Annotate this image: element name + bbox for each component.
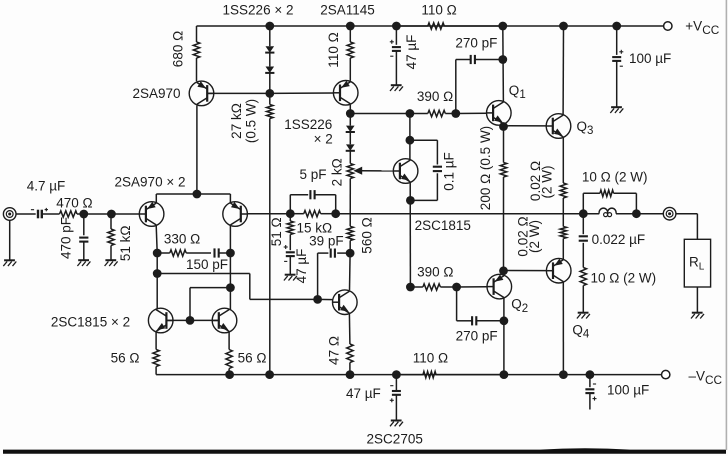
resistor 0.02 ohm Q4 [560,227,566,260]
capacitor 0.1uF [433,167,442,171]
right edge line [725,0,727,450]
junction 0.1uF bottom tap [406,196,415,205]
label 100uF bottom [607,383,649,398]
resistor 560 ohm [347,226,353,253]
wire 47uF to ground [395,51,397,85]
capacitor 5pF [310,190,314,199]
capacitor 47uF -Vcc [390,386,401,403]
svg-text:–VCC: –VCC [689,369,723,387]
resistor 27k 0.5W [267,93,273,374]
wire 150pF to T2 collector [219,252,231,254]
transistor T2 2SA970 diff right [223,202,248,227]
ground 100uF +Vcc [610,107,623,113]
wire Q3 collector [562,26,564,115]
wire T5 emitter col [409,182,411,287]
junction VAS emitter at rail [346,370,355,379]
wire 47uF bottom to ground [395,395,397,421]
label RL [689,255,705,273]
ground 47uF feedback [284,275,297,281]
junction T4 collector node [346,109,355,118]
ground 47uF -Vcc [390,421,403,427]
potentiometer 2k trimmer [347,164,353,179]
label 47uF top [404,35,419,70]
svg-text:56 Ω: 56 Ω [238,351,267,366]
junction 270pF at Q2 collector [500,316,509,325]
svg-text:+VCC: +VCC [685,19,719,37]
label Q1 [509,83,526,101]
wire rail to D1 [269,26,271,46]
svg-text:270 pF: 270 pF [455,35,497,50]
diode D1 1SS226 [265,46,274,52]
label 2SA970 [132,86,180,101]
junction rail bottom 47uF [392,370,401,379]
svg-text:0.022 µF: 0.022 µF [592,232,646,247]
wire left emitter [155,194,157,203]
diode D2 1SS226 [265,67,274,73]
svg-text:(0.5 W): (0.5 W) [244,99,259,143]
resistor 47 ohm [347,344,353,375]
wire Q4 base [504,270,547,272]
label 470 ohm [56,196,92,211]
wire Q1 collector [502,26,505,102]
svg-text:2SA970: 2SA970 [132,86,180,101]
wire node B to T1 base [111,213,139,215]
resistor 15k feedback [290,211,335,217]
junction Q1 emitter node [499,122,508,131]
junction T1 collector node [153,249,162,258]
capacitor 270pF bottom [472,316,476,325]
svg-text:× 2: × 2 [314,132,333,147]
label 270 pF top [455,35,497,50]
wire D4 to trimmer [349,151,351,164]
wire node A to node B [84,213,112,215]
svg-text:390 Ω: 390 Ω [417,89,453,104]
svg-text:10 Ω (2 W): 10 Ω (2 W) [591,270,657,285]
junction Q1 base node [451,109,460,118]
wire 5pF left leg [290,195,308,214]
wire Q4 collector [562,282,564,375]
label 47 ohm [326,336,341,365]
svg-text:0.1 µF: 0.1 µF [441,152,456,191]
capacitor 150pF [215,248,219,257]
resistor 56 ohm right [226,332,232,375]
transistor Q2 driver PNP [487,274,512,299]
junction T2 collector node [226,249,235,258]
resistor 390 ohm top [350,110,456,116]
svg-text:1SS226 × 2: 1SS226 × 2 [223,2,294,17]
wire trimmer to 560 ohm [349,179,351,227]
transistor T6 VAS 2SC2705 [333,290,358,315]
capacitor 0.022uF zobel [579,236,588,240]
ground input jack [3,260,16,266]
label 2SA970 x2 [115,175,186,190]
label 1SS226 x2 top [223,2,294,17]
label 270 pF bottom [456,328,498,343]
junction bias base node [265,89,274,98]
label Q4 [572,323,590,341]
svg-text:110 Ω: 110 Ω [421,3,456,18]
svg-text:47 µF: 47 µF [404,35,419,70]
capacitor 47uF feedback [284,245,295,261]
svg-text:15 kΩ: 15 kΩ [296,221,332,236]
diode D3 1SS226 [346,126,355,132]
bottom black bar [3,448,726,454]
svg-text:39 pF: 39 pF [309,233,344,248]
svg-text:2SC1815 × 2: 2SC1815 × 2 [51,315,130,330]
label 47 uF feedback [294,249,309,284]
capacitor 100uF +Vcc [612,50,623,66]
junction rail diode string [265,22,274,31]
label 39 pF [309,233,344,248]
label 0.1 uF [441,152,456,191]
wire mirror bases link [166,319,218,321]
label 2SA1145 [320,3,375,18]
wire 270pF bottom left leg [457,287,472,321]
wire rail to 100uF bottom [589,375,591,388]
resistor 470 ohm input [42,211,84,217]
label 0.02 ohm Q3 [528,161,543,201]
capacitor C2 470pF [79,238,88,242]
label 2SC1815 bias [415,218,471,233]
svg-text:Q2: Q2 [511,297,528,315]
svg-text:2SA1145: 2SA1145 [320,3,375,18]
junction Q3 collector rail [559,22,568,31]
svg-text:Q1: Q1 [509,83,526,101]
inductor L1 output coil [599,208,616,216]
wire to output jack [636,213,663,215]
svg-text:2SC1815: 2SC1815 [415,218,471,233]
wire D2 to base node [269,73,271,94]
wire 270pF right leg [475,59,502,61]
capacitor 100uF -Vcc [585,384,596,401]
svg-text:51 Ω: 51 Ω [269,217,284,246]
label Q2 [511,297,528,315]
junction Q2 emitter node [499,266,508,275]
junction 27k at -Vcc rail [265,370,274,379]
wire D3 to D4 [349,132,351,144]
wire base node to T4 base [270,92,334,94]
wire Q3 base [504,125,547,127]
transistor Q4 output PNP [546,258,571,283]
resistor 330 ohm [157,250,211,256]
terminal +Vcc [664,22,672,30]
junction output line left [331,209,340,218]
resistor 0.02 ohm Q3 [560,137,566,227]
wire 5pF right leg [315,195,336,214]
ground 47uF +Vcc [390,85,403,91]
wire to Q1 base [456,112,487,114]
transistor T4 2SA1145 [333,81,358,106]
resistor 390 ohm bottom [410,284,456,290]
label 15 kohm [296,221,332,236]
svg-text:(2 W): (2 W) [540,166,555,199]
wire 47uF to ground [289,256,291,274]
junction 270pF at Q1 collector [498,55,507,64]
transistor T7 2SC1815 mirror left [148,308,173,333]
wire VAS emitter to 47 ohm [348,314,351,344]
junction feedback node [286,209,295,218]
junction mirror left tap [153,269,162,278]
wire 0.1uF bottom leg [410,173,437,200]
svg-text:470 pF: 470 pF [59,217,74,259]
wire rail to 47uF bottom [395,375,397,391]
junction Q4 collector rail [559,370,568,379]
junction input node B [107,210,116,219]
wire zobel cap leg [582,214,584,235]
label 2W Q3 [540,166,555,199]
terminal -Vcc [662,370,670,378]
junction mirror bases [186,316,195,325]
label 0.02 ohm Q4 [516,216,531,256]
label +Vcc [685,19,719,37]
wire node to D3 [349,114,351,126]
label 51 kohm [118,225,133,261]
capacitor 47uF +Vcc [390,40,401,56]
label 51 ohm [269,217,284,246]
wire 270pF left leg [456,60,470,114]
transistor T1 2SA970 diff left [139,202,164,227]
ground zobel [577,313,590,319]
wire T2 collector down [229,225,231,253]
wire jack to RL [676,214,697,240]
svg-text:200 Ω (0.5 W): 200 Ω (0.5 W) [478,126,493,210]
wire to inductor [583,213,599,215]
transistor T5 2SC1815 bias [393,159,418,184]
ground C2 [77,260,90,266]
label 330 ohm [164,231,200,246]
wire output line [336,213,584,215]
input jack J1 [3,208,16,221]
capacitor 39pF [331,249,335,258]
junction diff tail [193,190,202,199]
resistor 110 ohm rail bottom [396,371,504,377]
wire node A down to C2 [83,214,85,235]
label 56 ohm left [111,351,140,366]
label 10 ohm 2W top [582,170,648,185]
wire T2 base to fb node [247,213,290,215]
label 1SS226 second [284,117,332,132]
label 0.022 uF [592,232,646,247]
wire RL to ground [696,287,698,313]
wire damping right leg [614,193,637,213]
wire 100uF bottom stub [589,393,591,409]
resistor 10 ohm damping [600,190,614,196]
junction rail 47uF [392,22,401,31]
label 10 ohm 2W zobel [591,270,657,285]
wire inductor to out node [616,213,636,215]
junction T5 collector node [406,109,415,118]
svg-text:(2 W): (2 W) [527,220,542,253]
wire node to VAS collector [349,253,352,290]
svg-text:5 pF: 5 pF [299,167,326,182]
diode D4 1SS226 [346,144,355,150]
label -Vcc [689,369,723,387]
wire T1 col to mirror [156,253,158,309]
wire right emitter [229,194,231,203]
wire D1 to D2 [269,53,271,67]
label 5 pF [299,167,326,182]
label 390 ohm top [417,89,453,104]
resistor 680 ohm [193,26,199,81]
capacitor C1 4.7uF input [31,208,48,218]
wire T1 collector down [156,225,157,253]
label 100uF top [629,51,671,66]
svg-text:100 µF: 100 µF [607,383,649,398]
output jack J2 [663,207,676,220]
wire T4 collector down [349,105,351,114]
junction inductor right [632,209,641,218]
label Q3 [577,119,594,137]
wire rail to 47uF [395,26,397,45]
svg-text:560 Ω: 560 Ω [360,217,375,253]
wire to Q2 base [457,286,488,288]
wire 270pF bottom right leg [477,320,504,322]
wire VAS base [318,298,333,300]
svg-text:110 Ω: 110 Ω [326,32,341,67]
label 200 ohm [478,126,493,210]
svg-text:51 kΩ: 51 kΩ [118,225,133,261]
label 4.7 uF [27,179,66,194]
label 2SC2705 [367,431,423,446]
wire jack ground stem [9,221,11,261]
svg-text:47 Ω: 47 Ω [326,336,341,365]
label 2SC1815 x2 [51,315,130,330]
svg-text:4.7 µF: 4.7 µF [27,179,66,194]
label 680 ohm [170,31,185,67]
svg-text:10 Ω (2 W): 10 Ω (2 W) [582,170,648,185]
label 150 pF [186,257,228,272]
svg-text:2 kΩ: 2 kΩ [329,158,344,186]
label 470 pF [59,217,74,259]
junction 0.1uF top tap [406,136,415,145]
junction VAS collector node [346,249,355,258]
resistor RL load box [684,239,710,287]
ground R 51k [105,260,118,266]
wire C2 to ground [83,242,85,260]
wire T3 base to diode node [207,92,270,94]
svg-text:RL: RL [689,255,705,273]
resistor 56 ohm left [153,332,159,375]
resistor 110 ohm top [347,26,353,81]
svg-text:470 Ω: 470 Ω [56,196,92,211]
wire T5 collector col [409,114,411,161]
svg-text:110 Ω: 110 Ω [413,350,448,365]
transistor T8 2SC1815 mirror right [212,308,237,333]
label 56 ohm right [238,351,267,366]
wire 100uF to ground [616,61,618,107]
junction input node A [79,210,88,219]
junction 56 ohm right rail [225,370,234,379]
resistor 51k to ground [108,214,114,260]
junction zobel tap [579,209,588,218]
label 390 ohm bottom [417,265,453,280]
resistor 200 ohm [500,127,506,271]
junction Q2 base node [452,283,461,292]
svg-text:100 µF: 100 µF [629,51,671,66]
label 47uF bottom [346,386,381,401]
label 110 ohm top [326,32,341,67]
wire T2 col to mirror [229,253,231,310]
svg-text:Q4: Q4 [572,323,590,341]
svg-text:390 Ω: 390 Ω [417,265,453,280]
wire mirror to VAS base [157,274,317,300]
ground RL [691,313,704,319]
wire 0.1uF top leg [410,140,438,164]
label 110 ohm rail top [421,3,456,18]
label 2W Q4 [527,220,542,253]
label 560 ohm [360,217,375,253]
svg-text:680 Ω: 680 Ω [170,31,185,67]
svg-text:27 kΩ: 27 kΩ [229,103,244,139]
transistor Q1 driver NPN [487,101,512,126]
junction rail 110 ohm [346,22,355,31]
label 27 kohm [229,103,244,139]
svg-text:47 µF: 47 µF [294,249,309,284]
resistor 51 ohm [287,214,293,251]
transistor T3 2SA970 current source [189,81,214,106]
label x 2 second [314,132,333,147]
wire bases up to diode conn [190,288,230,321]
wire damping left leg [583,193,600,213]
label 0.5 W [244,99,259,143]
svg-text:47 µF: 47 µF [346,386,381,401]
svg-text:150 pF: 150 pF [186,257,228,272]
wire 39pF left leg [318,253,329,299]
junction Q1 collector rail [498,22,507,31]
wiper arrow 2k trimmer [353,167,393,175]
junction rail 100uF [612,22,621,31]
svg-text:Q3: Q3 [577,119,594,137]
wire Q1 emitter [502,124,504,127]
wire rail to 100uF [616,26,618,55]
svg-text:2SA970 × 2: 2SA970 × 2 [115,175,186,190]
junction VAS base node [313,295,322,304]
resistor 10 ohm zobel [580,243,586,313]
junction Q2 base row left [406,283,415,292]
wire jack to C1 [16,213,36,215]
capacitor 270pF top [471,55,475,64]
junction mirror right tap [226,283,235,292]
wire Q2 collector [503,298,505,375]
svg-text:270 pF: 270 pF [456,328,498,343]
wire T3 collector to tail [196,106,198,194]
wire diff tail [156,193,230,195]
svg-text:1SS226: 1SS226 [284,117,332,132]
svg-text:2SC2705: 2SC2705 [367,431,423,446]
transistor Q3 output NPN [546,114,571,139]
label 110 ohm rail bottom [413,350,448,365]
resistor 110 ohm rail top [396,23,502,29]
wire 39pF right leg [337,252,350,254]
junction rail bottom 100uF [586,370,595,379]
label 2 kohm [329,158,344,186]
svg-text:56 Ω: 56 Ω [111,351,140,366]
svg-text:330 Ω: 330 Ω [164,231,200,246]
wire -Vcc bottom rail [156,374,661,376]
wire +Vcc top rail [197,25,664,27]
junction Q2 collector rail [500,370,509,379]
